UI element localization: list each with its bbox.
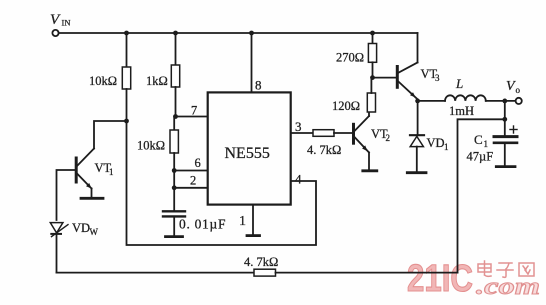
wire top rail — [59, 32, 418, 34]
svg-text:2: 2 — [386, 133, 391, 143]
svg-text:0. 01µF: 0. 01µF — [179, 217, 226, 232]
node dot 270/120/base junction — [370, 75, 375, 80]
wire pin 2 — [174, 187, 208, 189]
svg-text:4. 7kΩ: 4. 7kΩ — [307, 143, 341, 157]
node pin 2 junction — [172, 185, 177, 190]
ground pin 1 — [247, 234, 260, 237]
resistor R4 4.7kΩ base — [313, 130, 354, 137]
svg-text:2: 2 — [190, 174, 196, 188]
node dot rail 270Ω — [370, 31, 375, 36]
wire bottom feedback rail right — [276, 272, 458, 274]
svg-text:1: 1 — [109, 167, 114, 177]
node dot VT3 emitter junction — [415, 99, 420, 104]
node R1 bottom junction — [124, 119, 129, 124]
node dot rail R2 — [173, 31, 178, 36]
wire feedback riser to output node — [458, 119, 505, 272]
ground VD1 — [407, 171, 426, 174]
svg-text:7: 7 — [191, 104, 197, 118]
wire reset line down to pin 4 — [127, 121, 317, 245]
pin 8 stem — [251, 33, 253, 92]
ground C1 — [496, 165, 515, 168]
diode VD1 — [410, 101, 424, 171]
svg-text:V: V — [50, 12, 61, 28]
ground C2 — [166, 235, 183, 238]
resistor R7 270Ω — [368, 33, 376, 78]
svg-text:1mH: 1mH — [449, 104, 474, 118]
node pin 7 junction — [173, 114, 178, 119]
node dot rail R1 — [124, 31, 129, 36]
svg-text:1: 1 — [239, 214, 246, 229]
svg-text:.com: .com — [476, 274, 540, 300]
inductor L 1mH — [445, 95, 486, 101]
svg-text:120Ω: 120Ω — [332, 99, 360, 113]
watermark 21IC.com logo — [407, 258, 540, 300]
svg-text:4. 7kΩ: 4. 7kΩ — [244, 255, 278, 269]
svg-text:1kΩ: 1kΩ — [146, 74, 168, 88]
svg-text:1: 1 — [444, 142, 449, 152]
svg-text:o: o — [516, 85, 521, 95]
svg-text:10kΩ: 10kΩ — [137, 139, 165, 153]
svg-text:270Ω: 270Ω — [336, 51, 364, 65]
svg-text:C: C — [474, 132, 483, 147]
transistor VT1 — [76, 149, 94, 198]
wire VT3 base — [373, 77, 397, 79]
capacitor C2 0.01µF — [163, 211, 185, 235]
node dot output — [502, 99, 507, 104]
pin 1 stem — [252, 205, 254, 235]
wire to inductor — [418, 100, 445, 102]
svg-text:VD: VD — [427, 136, 445, 150]
wire bottom feedback rail left — [57, 272, 255, 274]
svg-text:8: 8 — [255, 78, 262, 93]
transistor VT2 — [354, 112, 370, 169]
transistor VT3 — [397, 33, 417, 99]
svg-text:V: V — [506, 79, 516, 94]
wire branch to VT1 collector — [94, 121, 127, 149]
svg-text:10kΩ: 10kΩ — [89, 74, 117, 88]
svg-text:3: 3 — [435, 73, 440, 83]
node dot pin 8 rail — [249, 31, 254, 36]
input terminal Vin — [52, 30, 58, 36]
svg-text:L: L — [455, 76, 463, 91]
svg-text:4: 4 — [295, 172, 302, 187]
resistor R1 10kΩ — [122, 33, 130, 121]
ground VT2 emitter — [363, 169, 377, 172]
svg-text:W: W — [90, 227, 99, 237]
svg-text:47µF: 47µF — [467, 150, 494, 164]
svg-text:NE555: NE555 — [225, 145, 270, 162]
capacitor C1 47µF — [494, 119, 517, 165]
wire pin 7 — [176, 116, 208, 118]
svg-text:21IC: 21IC — [407, 258, 473, 300]
wire VT1 base to zener — [57, 170, 77, 220]
resistor R3 10kΩ — [170, 117, 178, 211]
resistor R6 4.7kΩ feedback — [254, 269, 276, 276]
svg-text:6: 6 — [195, 156, 201, 170]
wire pin 6 — [174, 170, 208, 172]
svg-text:IN: IN — [62, 18, 71, 28]
IC U1 NE555 — [208, 92, 291, 204]
resistor R2 1kΩ — [171, 33, 179, 117]
wire output sense drop — [504, 101, 506, 119]
svg-text:1: 1 — [484, 139, 489, 149]
wire pin 3 — [291, 132, 313, 134]
svg-text:3: 3 — [295, 119, 302, 134]
resistor R5 120Ω — [367, 78, 375, 112]
zener diode VDW — [50, 223, 68, 273]
node dot sense — [502, 117, 507, 122]
svg-text:VD: VD — [72, 221, 90, 235]
ground VT1 emitter — [81, 197, 103, 200]
node pin 6 junction — [172, 168, 177, 173]
wire inductor to output — [486, 100, 516, 102]
output terminal Vo — [516, 98, 522, 104]
